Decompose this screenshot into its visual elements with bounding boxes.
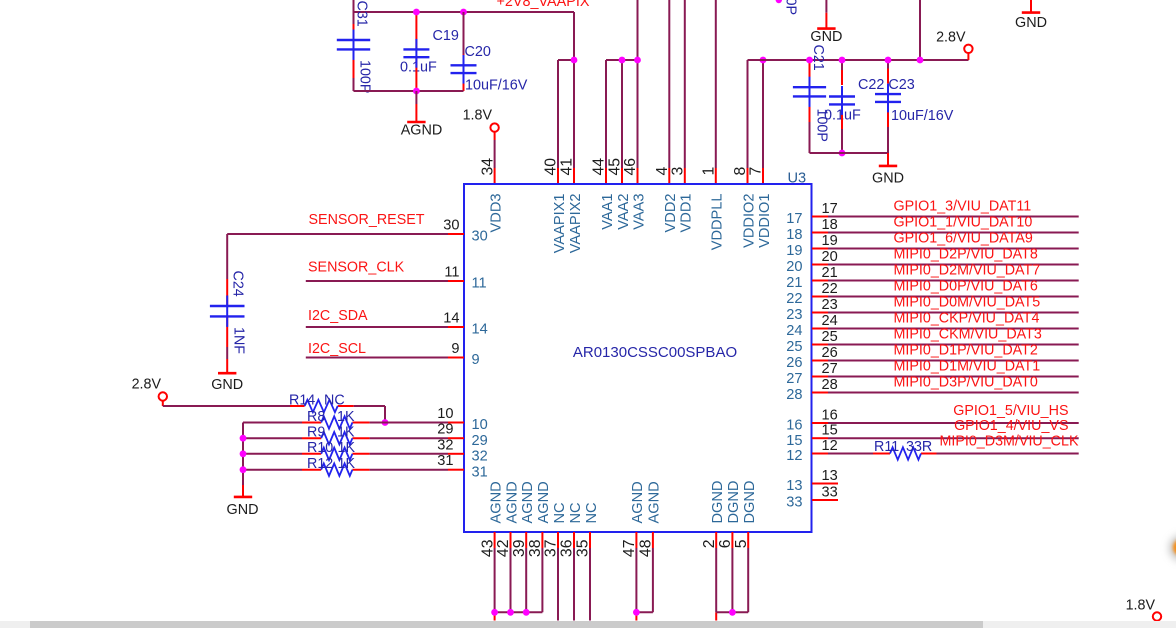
net label MIPI0_D2M/VIU_DAT7 <box>894 263 1041 279</box>
orange floating button shadow (right edge) <box>1169 535 1176 561</box>
wire GND stub (C23) <box>887 153 889 166</box>
pin 13 number inside <box>786 478 802 494</box>
wire pin3 vertical <box>684 0 686 184</box>
net label I2C_SCL <box>308 341 366 357</box>
pin 26 number outside <box>822 345 838 361</box>
pin 14 stub (left) <box>448 326 464 328</box>
pin 40 name VAAPIX1 <box>552 194 568 254</box>
junction dot pins40/41 <box>571 57 578 64</box>
net label GPIO1_3/VIU_DAT11 <box>894 199 1032 215</box>
pin 46 name VAA3 <box>631 194 647 230</box>
capacitor C22 <box>829 97 855 105</box>
svg-text:18: 18 <box>822 217 838 233</box>
junction dot C19 top <box>413 9 420 16</box>
wire pin8 branch <box>747 60 749 184</box>
pin 11 number outside <box>444 265 459 281</box>
capacitor C21 <box>793 87 826 96</box>
pin 21 wire (right) <box>812 280 1079 282</box>
pin 32 stub (left) <box>448 453 464 455</box>
pin 39 number (bottom) <box>511 539 528 557</box>
svg-text:2.8V: 2.8V <box>132 376 162 392</box>
net label GPIO1_1/VIU_DAT10 <box>894 215 1033 231</box>
pin 44 number (top) <box>591 158 608 176</box>
junction dot C20 top <box>460 9 467 16</box>
power rail +2V8_VAAPIX <box>354 11 575 13</box>
pin 3 name VDD1 <box>679 194 695 233</box>
svg-text:GPIO1_1/VIU_DAT10: GPIO1_1/VIU_DAT10 <box>894 215 1033 231</box>
svg-text:20: 20 <box>822 249 838 265</box>
pin 27 number inside <box>786 371 802 387</box>
pin 5 number (bottom) <box>733 539 750 548</box>
pin 6 name DGND <box>726 481 742 524</box>
pin 47 stub (bottom) <box>635 532 637 548</box>
svg-text:R8: R8 <box>307 409 325 425</box>
wire C20 top stub <box>463 12 465 65</box>
svg-text:13: 13 <box>822 468 838 484</box>
wire R12 row <box>243 469 448 471</box>
svg-text:NC: NC <box>324 393 345 409</box>
svg-text:28: 28 <box>822 377 838 393</box>
svg-text:DGND: DGND <box>726 481 742 524</box>
resistor R9 zigzag <box>321 432 352 444</box>
pin 3 number (top) <box>670 167 687 176</box>
label C24 <box>230 271 246 297</box>
pin 28 number outside <box>822 377 838 393</box>
svg-text:C21: C21 <box>810 45 826 71</box>
pin 31 stub (left) <box>448 469 464 471</box>
svg-text:GPIO1_4/VIU_VS: GPIO1_4/VIU_VS <box>954 418 1068 434</box>
net label MIPI0_D1P/VIU_DAT2 <box>894 343 1038 359</box>
pin 2 name DGND <box>710 481 726 524</box>
svg-text:11: 11 <box>472 276 487 292</box>
junction dot x920 <box>917 57 924 64</box>
junction dot pin6 <box>729 609 736 616</box>
ground AGND bar <box>407 121 425 124</box>
svg-text:MIPI0_D0M/VIU_DAT5: MIPI0_D0M/VIU_DAT5 <box>894 295 1041 311</box>
svg-text:MIPI0_D3P/VIU_DAT0: MIPI0_D3P/VIU_DAT0 <box>894 375 1038 391</box>
pin 9 stub (left) <box>448 357 464 359</box>
pin 24 wire (right) <box>812 328 1079 330</box>
svg-text:34: 34 <box>479 158 496 176</box>
scrollbar thumb <box>30 621 983 628</box>
pin 40 number (top) <box>543 158 560 176</box>
pin 35 name NC <box>584 502 600 523</box>
pin 9 number inside <box>472 352 480 368</box>
IC U3 box <box>464 184 812 532</box>
wire pin43 drop <box>494 548 496 621</box>
wire caps bottom rail <box>810 152 889 154</box>
svg-text:0.1uF: 0.1uF <box>400 60 437 76</box>
net label MIPI0_D3P/VIU_DAT0 <box>894 375 1038 391</box>
wire GND bus (resistors) <box>242 423 244 497</box>
svg-text:14: 14 <box>472 322 488 338</box>
svg-text:MIPI0_CKP/VIU_DAT4: MIPI0_CKP/VIU_DAT4 <box>894 311 1040 327</box>
wire pin5 drop <box>747 548 749 612</box>
pin 41 number (top) <box>559 158 576 176</box>
pin 39 name AGND <box>520 481 536 523</box>
wire SENSOR_RESET <box>227 233 464 235</box>
wire AGND stub <box>415 91 417 122</box>
svg-text:18: 18 <box>786 227 802 243</box>
pin 37 name NC <box>552 502 568 523</box>
svg-text:VAAPIX1: VAAPIX1 <box>552 194 568 254</box>
wire R8 row <box>243 422 448 424</box>
pin 30 number outside <box>443 218 459 234</box>
pin 48 stub (bottom) <box>652 532 654 548</box>
svg-text:33: 33 <box>786 495 802 511</box>
pin 48 number (bottom) <box>638 539 655 557</box>
svg-text:VDD3: VDD3 <box>488 194 504 233</box>
svg-text:7: 7 <box>748 167 765 176</box>
pin 15 number outside <box>822 423 838 439</box>
pin 6 stub (bottom) <box>731 532 733 548</box>
wire C19 bottom <box>415 57 417 91</box>
pin 19 number outside <box>822 233 838 249</box>
svg-text:VAA1: VAA1 <box>600 194 616 230</box>
pin 4 number (top) <box>654 167 671 176</box>
wire rail riser x920 <box>919 0 921 60</box>
pin 38 stub (bottom) <box>541 532 543 548</box>
svg-text:10: 10 <box>437 406 453 422</box>
wire C24 bottom <box>226 316 228 373</box>
pin 27 number outside <box>822 361 838 377</box>
svg-text:30: 30 <box>443 218 459 234</box>
resistor R14 zigzag <box>305 400 338 412</box>
svg-text:VDDIO1: VDDIO1 <box>757 194 773 248</box>
svg-text:12: 12 <box>786 448 802 464</box>
label 10uF/16V (C23) <box>891 108 954 124</box>
svg-text:12: 12 <box>822 438 838 454</box>
pin 17 number inside <box>786 211 802 227</box>
wire C20 bottom <box>463 73 465 91</box>
wire pin2 drop <box>715 548 717 621</box>
net label GPIO1_6/VIU_DATA9 <box>894 231 1033 247</box>
svg-text:19: 19 <box>822 233 838 249</box>
svg-text:29: 29 <box>472 433 488 449</box>
svg-text:AGND: AGND <box>401 123 443 139</box>
pin 43 stub (bottom) <box>494 532 496 548</box>
pin 31 number inside <box>472 464 488 480</box>
svg-text:10uF/16V: 10uF/16V <box>465 78 528 94</box>
svg-text:45: 45 <box>607 158 624 176</box>
capacitor C19 <box>403 49 429 57</box>
svg-text:15: 15 <box>822 423 838 439</box>
svg-text:+2V8_VAAPIX: +2V8_VAAPIX <box>497 0 590 10</box>
capacitor C31 <box>337 40 370 49</box>
net label MIPI0_CKP/VIU_DAT4 <box>894 311 1040 327</box>
net label MIPI0_D3M/VIU_CLK <box>939 433 1079 449</box>
label 0.1uF (C19) <box>400 60 437 76</box>
label 100P (C31) <box>357 60 373 93</box>
net label +2V8_VAAPIX <box>497 0 590 10</box>
svg-text:NC: NC <box>584 502 600 523</box>
wire pin39 drop <box>525 548 527 612</box>
pin 31 number outside <box>437 453 453 469</box>
svg-text:26: 26 <box>822 345 838 361</box>
net label I2C_SDA <box>308 308 368 324</box>
svg-text:R9: R9 <box>307 425 325 441</box>
svg-text:NC: NC <box>552 502 568 523</box>
ground GND (under C23) <box>872 166 904 187</box>
pin 11 stub (left) <box>448 280 464 282</box>
pin 35 stub (bottom) <box>589 532 591 548</box>
wire C23 bottom <box>887 102 889 153</box>
svg-text:3: 3 <box>670 167 687 176</box>
wire pin35 drop <box>589 548 591 621</box>
wire pin40 branch <box>558 60 574 184</box>
pin 38 number (bottom) <box>527 539 544 557</box>
junction dot pin7 rail <box>760 57 767 64</box>
wire R10 row <box>243 453 448 455</box>
pin 33 stub (right) <box>812 499 838 501</box>
resistor R8 zigzag <box>321 416 352 428</box>
resistor R12 zigzag <box>321 464 352 476</box>
wire R14 row <box>163 406 385 423</box>
svg-text:46: 46 <box>622 158 639 176</box>
junction dot pin47 <box>633 609 640 616</box>
wire 2.8V rail <box>748 59 969 61</box>
pin 41 name VAAPIX2 <box>568 194 584 254</box>
pin 28 wire (right) <box>812 392 1079 394</box>
net label GPIO1_4/VIU_VS <box>954 418 1068 434</box>
wire pin34 drop <box>494 132 496 184</box>
svg-text:22: 22 <box>786 291 802 307</box>
net label MIPI0_D0P/VIU_DAT6 <box>894 279 1038 295</box>
svg-text:2.8V: 2.8V <box>936 30 966 46</box>
net label MIPI0_D0M/VIU_DAT5 <box>894 295 1041 311</box>
pin 42 name AGND <box>504 481 520 523</box>
svg-text:1K: 1K <box>337 409 355 425</box>
label C22 C23 <box>858 77 915 93</box>
net label SENSOR_CLK <box>308 260 405 276</box>
pin 17 number outside <box>822 201 838 217</box>
svg-text:GND: GND <box>1015 15 1047 31</box>
pin 47 name AGND <box>630 481 646 523</box>
svg-text:24: 24 <box>786 323 802 339</box>
label R9 1K <box>307 425 355 441</box>
svg-text:C31: C31 <box>354 1 370 27</box>
pin 26 wire (right) <box>812 360 1079 362</box>
svg-text:8: 8 <box>732 167 749 176</box>
junction dot 2.8V/pin10 <box>382 419 389 426</box>
svg-text:44: 44 <box>591 158 608 176</box>
wire pin36 drop <box>573 548 575 621</box>
svg-text:26: 26 <box>786 355 802 371</box>
svg-text:VAA3: VAA3 <box>631 194 647 230</box>
pin 29 number outside <box>437 422 453 438</box>
label R8 1K <box>307 409 355 425</box>
svg-text:MIPI0_D3M/VIU_CLK: MIPI0_D3M/VIU_CLK <box>939 433 1079 449</box>
label R10 1K <box>307 440 355 456</box>
pin 34 name VDD3 <box>488 194 504 233</box>
pin 19 number inside <box>786 243 802 259</box>
wire pin1 vertical <box>715 0 717 184</box>
scrollbar track <box>0 621 1176 628</box>
svg-text:27: 27 <box>822 361 838 377</box>
pin 18 number inside <box>786 227 802 243</box>
svg-text:5: 5 <box>733 539 750 548</box>
pin 16 number inside <box>786 418 802 434</box>
svg-text:13: 13 <box>786 478 802 494</box>
svg-text:GPIO1_6/VIU_DATA9: GPIO1_6/VIU_DATA9 <box>894 231 1033 247</box>
pin 20 number outside <box>822 249 838 265</box>
svg-text:SENSOR_RESET: SENSOR_RESET <box>309 212 425 228</box>
svg-text:VDDPLL: VDDPLL <box>710 194 726 251</box>
svg-text:25: 25 <box>786 339 802 355</box>
pin 12 number inside <box>786 448 802 464</box>
svg-text:AR0130CSSC00SPBAO: AR0130CSSC00SPBAO <box>573 344 737 361</box>
net label SENSOR_RESET <box>309 212 425 228</box>
wire C21 bottom <box>809 96 811 153</box>
pin 12 number outside <box>822 438 838 454</box>
svg-text:32: 32 <box>472 448 488 464</box>
junction dot pin46 <box>634 57 641 64</box>
pin 33 number inside <box>786 495 802 511</box>
net label MIPI0_D2P/VIU_DAT8 <box>894 247 1038 263</box>
wire pin44 branch <box>606 60 638 184</box>
pin 11 number inside <box>472 276 487 292</box>
pin 18 wire (right) <box>812 232 1079 234</box>
svg-text:GND: GND <box>872 171 904 187</box>
power 1.8V (pin 34) <box>463 108 499 132</box>
svg-text:2: 2 <box>701 540 718 549</box>
junction dot pin39 <box>523 609 530 616</box>
label C20 <box>465 44 491 60</box>
label AGND <box>401 123 443 139</box>
svg-text:9: 9 <box>472 352 480 368</box>
pin 23 number inside <box>786 307 802 323</box>
junction dot C21 top <box>806 57 813 64</box>
pin 1 number (top) <box>701 167 718 176</box>
svg-text:17: 17 <box>786 211 802 227</box>
junction dot C23 top <box>885 57 892 64</box>
junction dot R12 bus <box>240 466 247 473</box>
label U3 <box>788 171 807 187</box>
svg-text:15: 15 <box>786 433 802 449</box>
svg-text:27: 27 <box>786 371 802 387</box>
svg-text:VDD2: VDD2 <box>663 194 679 233</box>
pin 23 wire (right) <box>812 312 1079 314</box>
power 2.8V (top) <box>936 30 973 61</box>
pin 14 number inside <box>472 322 488 338</box>
ground GND (under C24) <box>211 373 243 393</box>
power 1.8V (bottom right) <box>1126 598 1162 621</box>
wire pin45 branch <box>621 60 623 184</box>
pin 20 wire (right) <box>812 264 1079 266</box>
pin 44 name VAA1 <box>600 194 616 230</box>
svg-text:AGND: AGND <box>647 481 663 523</box>
svg-text:I2C_SDA: I2C_SDA <box>308 308 368 324</box>
ground GND (top right, x1031) <box>1015 0 1047 31</box>
label R11 33R <box>874 439 932 455</box>
pin 30 number inside <box>472 229 488 245</box>
svg-text:SENSOR_CLK: SENSOR_CLK <box>308 260 405 276</box>
pin 47 number (bottom) <box>621 540 638 558</box>
svg-text:6: 6 <box>717 539 734 548</box>
label 100P (C21) <box>814 109 830 142</box>
svg-text:29: 29 <box>437 422 453 438</box>
svg-text:1NF: 1NF <box>231 327 247 354</box>
svg-text:R11: R11 <box>874 439 899 455</box>
label 1NF (C24) <box>231 327 247 354</box>
pin 43 name AGND <box>488 481 504 523</box>
wire AGND bus (pins 47/48) <box>636 611 653 613</box>
pin 22 wire (right) <box>812 296 1079 298</box>
svg-text:9: 9 <box>451 341 459 357</box>
wire AGND bus (bottom left) <box>495 611 543 613</box>
wire pin46 branch <box>637 0 639 184</box>
svg-text:GPIO1_3/VIU_DAT11: GPIO1_3/VIU_DAT11 <box>894 199 1032 215</box>
pin 39 stub (bottom) <box>525 532 527 548</box>
pin 33 number outside <box>822 484 838 500</box>
svg-text:1K: 1K <box>337 425 355 441</box>
pin 24 number inside <box>786 323 802 339</box>
pin 1 name VDDPLL <box>710 194 726 251</box>
pin 34 number (top) <box>479 158 496 176</box>
wire R9 row <box>243 437 448 439</box>
svg-text:MIPI0_D2M/VIU_DAT7: MIPI0_D2M/VIU_DAT7 <box>894 263 1041 279</box>
svg-text:GND: GND <box>227 502 259 518</box>
pin 22 number inside <box>786 291 802 307</box>
wire pin37 drop <box>557 548 559 621</box>
svg-text:19: 19 <box>786 243 802 259</box>
label 0P (cut cap label) <box>783 0 799 15</box>
wire pin6 drop <box>731 548 733 612</box>
pin 12 wire segments <box>812 453 1079 455</box>
svg-text:31: 31 <box>437 453 453 469</box>
pin 28 number inside <box>786 387 802 403</box>
wire C31 top stub <box>353 0 355 40</box>
label C31 <box>354 1 370 27</box>
svg-text:GND: GND <box>810 29 842 45</box>
svg-text:11: 11 <box>444 265 459 281</box>
svg-text:R10: R10 <box>307 440 333 456</box>
power 2.8V (left) <box>132 376 167 406</box>
svg-text:25: 25 <box>822 329 838 345</box>
label 10uF/16V (C20) <box>465 78 528 94</box>
junction dot R10 bus <box>240 450 247 457</box>
pin 21 number inside <box>786 275 802 291</box>
pin 16 wire (right) <box>812 422 1079 424</box>
capacitor lead overlays <box>227 30 888 327</box>
wire C31 bottom <box>353 49 355 91</box>
pin 16 number outside <box>822 407 838 423</box>
pin 25 wire (right) <box>812 344 1079 346</box>
wire C22 top stub <box>841 60 843 85</box>
pin 5 name DGND <box>742 481 758 524</box>
label 0.1uF (C22) <box>824 108 861 124</box>
pin 15 wire (right) <box>812 437 1079 439</box>
capacitor C23 <box>875 94 901 102</box>
pin 42 number (bottom) <box>495 540 512 558</box>
pin 9 number outside <box>451 341 459 357</box>
svg-text:14: 14 <box>443 311 459 327</box>
pin 36 stub (bottom) <box>573 532 575 548</box>
net label MIPI0_CKM/VIU_DAT3 <box>894 327 1042 343</box>
pin 20 number inside <box>786 259 802 275</box>
net label MIPI0_D1M/VIU_DAT1 <box>894 359 1041 375</box>
wire SENSOR_CLK <box>306 280 448 282</box>
pin 7 name VDDIO1 <box>757 194 773 248</box>
svg-text:1K: 1K <box>338 456 356 472</box>
wire C19 top stub <box>415 12 417 49</box>
junction dot C22 top <box>839 57 846 64</box>
ground GND (top, x826) <box>810 0 842 45</box>
pin 17 wire (right) <box>812 216 1079 218</box>
pin 29 number inside <box>472 433 488 449</box>
pin 38 name AGND <box>536 481 552 523</box>
svg-text:VDDIO2: VDDIO2 <box>741 194 757 248</box>
